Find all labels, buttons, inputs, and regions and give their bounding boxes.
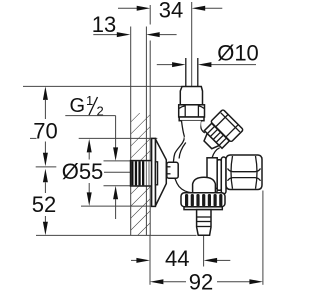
G 1/2 leader <box>65 115 115 117</box>
svg-text:1: 1 <box>86 93 93 108</box>
svg-text:34: 34 <box>159 0 183 23</box>
body curve outlet to skirt <box>212 148 220 158</box>
svg-text:92: 92 <box>189 270 213 295</box>
body seam left shoulder <box>179 143 186 159</box>
nipple (thread in wall) <box>131 161 152 186</box>
right extension for 92 <box>262 191 264 285</box>
wall left edge line <box>130 27 132 236</box>
collar between face and cone <box>155 162 157 185</box>
hex nut top <box>179 105 205 117</box>
svg-text:Ø10: Ø10 <box>217 41 259 66</box>
ring flange <box>184 207 222 210</box>
rosette cone <box>155 139 166 206</box>
bottom extension line <box>36 234 197 236</box>
collar <box>179 117 204 121</box>
dim O55 <box>30 137 37 139</box>
adapter block <box>167 162 178 178</box>
wall face extension lower <box>149 235 151 284</box>
svg-text:G: G <box>70 95 86 117</box>
dim 34 line right arrow <box>203 7 222 9</box>
svg-text:Ø55: Ø55 <box>62 159 104 184</box>
top extension line (70 top / valve top plane) <box>23 85 182 87</box>
svg-text:70: 70 <box>33 119 57 144</box>
svg-text:52: 52 <box>32 192 56 217</box>
body outline left <box>173 137 192 193</box>
svg-text:13: 13 <box>92 12 116 37</box>
dim 44 <box>131 259 138 261</box>
hose barb <box>197 210 211 236</box>
skirt knurled <box>204 123 229 148</box>
dim 34 line left arrow <box>118 7 140 9</box>
pipe centerline <box>191 2 193 103</box>
knob group (45 deg) <box>198 109 244 155</box>
horizontal centerline <box>104 171 151 173</box>
compression nut right <box>226 155 262 190</box>
right outlet tube <box>207 158 217 189</box>
body fill <box>173 120 219 193</box>
dim 13 line + arrows <box>93 34 119 36</box>
dim 92 <box>150 279 164 284</box>
svg-text:2: 2 <box>97 104 104 119</box>
G1/2 thread extension lines <box>104 160 131 162</box>
dim 52 <box>43 169 48 183</box>
bottom outlet centerline <box>203 236 205 267</box>
body outline right <box>215 158 217 193</box>
bottom boss dome <box>193 177 216 193</box>
bonnet <box>202 133 219 150</box>
top fitting: pipe <box>186 58 198 87</box>
cap hex <box>211 109 244 142</box>
70/52 boundary tick <box>36 166 57 168</box>
wall face line <box>149 5 151 25</box>
svg-text:44: 44 <box>165 246 189 271</box>
washer ring <box>217 160 221 191</box>
body saddle <box>200 121 204 133</box>
dim O10 arrows <box>157 64 175 66</box>
rosette face <box>152 138 156 206</box>
wall hatch <box>131 113 151 236</box>
crown face line <box>221 113 240 132</box>
olive <box>221 157 226 194</box>
wall tile boundary line <box>145 27 147 236</box>
knurled ring <box>181 193 225 207</box>
compression cap <box>180 87 202 105</box>
neck <box>182 121 201 140</box>
